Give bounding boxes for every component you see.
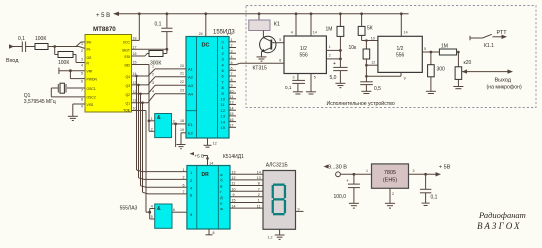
svg-text:Q3: Q3 [125, 84, 130, 88]
svg-text:7: 7 [183, 190, 185, 194]
svg-text:1/2: 1/2 [397, 46, 404, 52]
svg-text:(на микрофон): (на микрофон) [487, 85, 522, 91]
svg-text:100К: 100К [35, 36, 46, 42]
svg-text:6: 6 [279, 59, 281, 63]
wire DA2 bottom pin [366, 72, 405, 80]
gate DD1.1 (&) [151, 114, 175, 138]
svg-text:9: 9 [233, 193, 235, 197]
svg-text:17: 17 [133, 45, 137, 49]
ground emitter [257, 57, 267, 61]
svg-text:к20: к20 [464, 60, 472, 66]
svg-text:3: 3 [293, 76, 295, 80]
svg-text:VSS: VSS [87, 103, 95, 107]
IC U1 МТ8870 DTMF decoder [81, 26, 137, 113]
svg-text:155ИД3: 155ИД3 [213, 30, 235, 36]
svg-text:в: в [220, 183, 222, 188]
svg-text:TOE: TOE [123, 109, 131, 113]
svg-text:GS: GS [87, 56, 93, 60]
resistor R8 1М (output) [439, 44, 459, 56]
svg-text:МТ8870: МТ8870 [93, 26, 116, 33]
svg-text:10: 10 [232, 187, 236, 191]
IC U2 155ИД3 decoder [186, 30, 235, 139]
svg-text:9: 9 [231, 84, 233, 88]
svg-text:8: 8 [213, 231, 215, 235]
wire Q2 pin12 to A3 [132, 85, 187, 95]
svg-text:1: 1 [183, 168, 185, 172]
svg-text:АЛС321Б: АЛС321Б [266, 163, 289, 169]
resistor R9 к20 [453, 52, 471, 89]
svg-text:Радиофанат: Радиофанат [478, 210, 526, 220]
svg-text:А2: А2 [188, 74, 194, 79]
+5V rail wire [117, 13, 409, 15]
svg-text:10: 10 [230, 89, 234, 93]
svg-text:Q4: Q4 [125, 75, 130, 79]
pin 8 ground К514ИД1 [206, 229, 215, 235]
svg-text:14: 14 [404, 31, 408, 35]
ground VSS pin9 [68, 104, 85, 121]
svg-text:4: 4 [151, 205, 153, 209]
wire input [13, 46, 22, 48]
capacitor C7 0,1 (output) [420, 174, 438, 205]
svg-text:5: 5 [279, 38, 281, 42]
svg-text:1: 1 [258, 199, 260, 203]
svg-text:&: & [157, 115, 161, 121]
display right pin stub [296, 208, 304, 212]
pin 24 wire to rail [199, 14, 206, 37]
svg-text:6: 6 [173, 208, 175, 212]
svg-text:2: 2 [392, 192, 394, 196]
svg-text:8: 8 [258, 182, 260, 186]
bus branch down to К514ИД1 input 8 [143, 103, 187, 194]
svg-text:8: 8 [231, 78, 233, 82]
wire to DA2 pin12 [366, 61, 378, 65]
svg-text:Выход: Выход [495, 78, 512, 84]
power input 9...30V [324, 165, 372, 177]
svg-text:7805: 7805 [384, 170, 396, 176]
svg-text:14: 14 [221, 119, 226, 124]
svg-text:Е2: Е2 [188, 131, 194, 136]
+5V output wire [409, 165, 451, 177]
crystal ZQ1 3,579545 МГц [24, 83, 85, 105]
svg-text:КТ315: КТ315 [253, 66, 268, 72]
svg-text:2: 2 [183, 176, 185, 180]
svg-text:4: 4 [81, 64, 83, 68]
segment wires a-g [230, 174, 263, 208]
+5V feed К514ИД1 pin14 [190, 152, 214, 166]
timer DA2 1/2 556 [378, 14, 440, 73]
wire to IN pins [48, 42, 85, 49]
svg-text:РТТ: РТТ [497, 30, 508, 36]
svg-text:Е1: Е1 [188, 122, 194, 127]
svg-text:3: 3 [413, 169, 415, 173]
svg-text:7: 7 [231, 72, 233, 76]
ground E2 [177, 145, 186, 149]
svg-text:1: 1 [231, 38, 233, 42]
resistor R5 5К [358, 14, 378, 42]
svg-text:1/2: 1/2 [300, 46, 307, 52]
wire gate DD1.2 output to pin 9 [172, 208, 187, 212]
ground DA1 pin [306, 74, 316, 95]
resistor R3 300К [132, 51, 167, 67]
svg-text:1: 1 [151, 117, 153, 121]
svg-text:15: 15 [232, 199, 236, 203]
svg-text:13: 13 [133, 81, 137, 85]
bus branch down to К514ИД1 input 4 [141, 94, 187, 188]
svg-text:0,1: 0,1 [155, 22, 162, 28]
wire StD pin15 to gate DD1.1 inputs [132, 65, 155, 132]
svg-text:12: 12 [232, 176, 236, 180]
wire [26, 46, 35, 48]
svg-text:1: 1 [366, 169, 368, 173]
wire Q3 pin13 to A2 [132, 77, 187, 86]
capacitor C3 0,1 (DA1) [285, 74, 305, 95]
svg-text:300: 300 [437, 67, 446, 73]
svg-text:5К: 5К [367, 26, 373, 32]
svg-text:IN+: IN+ [87, 41, 92, 45]
svg-text:13: 13 [232, 170, 236, 174]
svg-text:К514ИД1: К514ИД1 [223, 154, 244, 160]
svg-text:14: 14 [232, 204, 236, 208]
display ground [268, 229, 285, 239]
svg-text:1: 1 [152, 65, 154, 69]
svg-text:11: 11 [257, 204, 261, 208]
svg-text:19: 19 [180, 128, 184, 132]
svg-text:&: & [157, 206, 161, 212]
resistor R7 300 [426, 52, 445, 94]
svg-text:11: 11 [133, 99, 137, 103]
wire Q4 pin14 to A1 [132, 69, 187, 77]
svg-text:0,1: 0,1 [285, 85, 292, 90]
svg-text:14: 14 [257, 170, 261, 174]
svg-text:+ 5В: + 5В [439, 165, 451, 171]
wire E2 to ground [181, 133, 186, 145]
wire gate DD1.1 output to E1 [172, 123, 187, 148]
svg-text:3,579545 МГц: 3,579545 МГц [24, 99, 56, 105]
svg-text:ВАЗГОХ: ВАЗГОХ [477, 221, 522, 231]
svg-text:7: 7 [258, 187, 260, 191]
svg-text:1М: 1М [326, 27, 333, 33]
wire VDD pin18 to rail [132, 14, 140, 41]
+5V rail label [96, 12, 119, 19]
output arrow Выход [462, 69, 522, 90]
svg-text:21: 21 [180, 72, 184, 76]
svg-text:К1: К1 [274, 22, 280, 28]
svg-text:8: 8 [81, 98, 83, 102]
svg-text:DC: DC [202, 43, 210, 49]
svg-text:24: 24 [199, 32, 203, 36]
svg-text:13: 13 [257, 176, 261, 180]
svg-text:12: 12 [133, 90, 137, 94]
svg-text:1: 1 [329, 45, 331, 49]
svg-text:4: 4 [152, 89, 154, 93]
svg-text:0,5: 0,5 [374, 86, 381, 92]
svg-text:6: 6 [183, 184, 185, 188]
svg-text:ж: ж [220, 206, 223, 211]
svg-text:4: 4 [231, 55, 233, 59]
capacitor C4 5,0 electrolytic [330, 61, 348, 88]
svg-text:10: 10 [221, 97, 226, 102]
svg-text:А4: А4 [188, 91, 194, 96]
handwritten signature [477, 210, 526, 231]
rail junction dots [138, 12, 403, 15]
svg-text:ESt: ESt [125, 55, 131, 59]
gate DD1.2 (&) 555ЛА3 [120, 204, 172, 228]
svg-text:18: 18 [180, 119, 184, 123]
resistor R2 100К (GS feedback) [55, 47, 85, 67]
output stub pin numbers [230, 38, 234, 128]
svg-text:556: 556 [396, 53, 405, 59]
svg-text:14: 14 [209, 162, 213, 166]
svg-text:2: 2 [231, 44, 233, 48]
wire VRef/INH tie [59, 68, 85, 79]
svg-text:17: 17 [230, 124, 234, 128]
svg-text:2: 2 [81, 49, 83, 53]
relay K1 [249, 14, 280, 38]
svg-text:555ЛА3: 555ЛА3 [120, 206, 138, 212]
svg-text:+: + [333, 61, 336, 67]
svg-text:DR: DR [202, 172, 210, 178]
pin numbers 155ИД3 left [180, 64, 184, 132]
resistor R6 10к [349, 41, 370, 82]
svg-text:12: 12 [213, 142, 217, 146]
svg-text:11: 11 [230, 95, 234, 99]
7-segment digit 8 [272, 184, 286, 216]
resistor R1 100К (input) [35, 36, 48, 50]
svg-text:5: 5 [424, 47, 426, 51]
regulator DA3 7805 (ЕН5) [366, 164, 415, 188]
svg-text:1,2: 1,2 [268, 236, 273, 240]
svg-text:9: 9 [404, 76, 406, 80]
svg-text:1М: 1М [441, 44, 448, 50]
svg-text:0,1: 0,1 [431, 195, 438, 201]
svg-text:5,0: 5,0 [330, 75, 337, 81]
capacitor C2 0,1 (StGT) [155, 14, 173, 54]
svg-text:StGT: StGT [122, 49, 130, 53]
svg-text:23: 23 [180, 89, 184, 93]
svg-text:10: 10 [133, 107, 137, 111]
svg-text:Исполнительное устройство: Исполнительное устройство [327, 100, 395, 107]
svg-text:9...30 В: 9...30 В [328, 165, 347, 171]
svg-text:556: 556 [300, 53, 309, 59]
pin 12 ground 155ИД3 [204, 138, 217, 147]
svg-text:VCC: VCC [123, 41, 131, 45]
svg-text:22: 22 [180, 80, 184, 84]
svg-text:+ 5 В: + 5 В [96, 13, 110, 19]
svg-text:5: 5 [81, 72, 83, 76]
svg-text:3: 3 [152, 81, 154, 85]
svg-text:11: 11 [232, 182, 236, 186]
resistor R4 1М (DA1) [326, 14, 344, 67]
svg-text:100К: 100К [58, 60, 69, 66]
wire StGT pin17 [132, 48, 167, 50]
svg-text:20: 20 [180, 64, 184, 68]
svg-text:3: 3 [231, 49, 233, 53]
svg-text:7: 7 [81, 89, 83, 93]
capacitor C1 0,1 (input) [18, 36, 26, 52]
svg-text:16: 16 [133, 52, 137, 56]
svg-text:10к: 10к [349, 45, 358, 51]
switch K1.1 and РТТ [470, 30, 507, 49]
svg-text:2: 2 [151, 127, 153, 131]
input terminal Вход [6, 44, 19, 64]
capacitor C6 100,0 electrolytic [334, 174, 360, 203]
svg-text:10: 10 [371, 36, 375, 40]
svg-text:9: 9 [81, 105, 83, 109]
svg-text:15: 15 [133, 61, 137, 65]
svg-text:А1: А1 [188, 67, 194, 72]
wire TOE pin10 to gate DD1.2 inputs [132, 111, 150, 213]
svg-text:12: 12 [371, 61, 375, 65]
svg-text:12: 12 [221, 108, 226, 113]
svg-text:6: 6 [81, 80, 83, 84]
svg-text:OSC1: OSC1 [87, 87, 96, 91]
svg-text:16: 16 [230, 118, 234, 122]
svg-text:14: 14 [313, 31, 317, 35]
svg-text:13: 13 [221, 114, 226, 119]
wire output 4 to DA1 trigger [236, 63, 284, 64]
timer DA1 1/2 556 [279, 14, 340, 74]
transistor VT1 КТ315 [253, 36, 285, 71]
svg-text:0,1: 0,1 [18, 36, 25, 42]
capacitor C5 0,5 [360, 82, 381, 94]
svg-text:9: 9 [298, 208, 300, 212]
svg-text:13: 13 [230, 101, 234, 105]
executive device dashed box [246, 6, 536, 108]
svg-text:StD: StD [124, 64, 130, 68]
svg-text:4: 4 [291, 31, 293, 35]
segment wire pin numbers [232, 170, 261, 208]
svg-text:5: 5 [231, 61, 233, 65]
output numbers 0-15 inside 155ИД3 [221, 40, 226, 131]
svg-text:15: 15 [221, 125, 226, 130]
output pin stubs 155ИД3 [229, 42, 236, 128]
svg-text:(ЕН5): (ЕН5) [383, 178, 398, 184]
svg-text:2: 2 [258, 193, 260, 197]
svg-text:PWDN: PWDN [87, 78, 98, 82]
svg-text:Вход: Вход [6, 58, 19, 64]
svg-text:5: 5 [151, 215, 153, 219]
svg-text:1: 1 [81, 42, 83, 46]
display HG1 АЛС321Б [263, 163, 296, 230]
svg-text:Q1: Q1 [125, 102, 130, 106]
svg-text:2: 2 [329, 54, 331, 58]
pin numbers К514ИД1 left [183, 168, 185, 194]
svg-text:+: + [346, 178, 349, 183]
svg-text:К1.1: К1.1 [484, 43, 494, 49]
svg-text:VRf: VRf [87, 70, 93, 74]
svg-text:15: 15 [230, 112, 234, 116]
IC U3 К514ИД1 7-seg decoder [187, 154, 244, 229]
svg-text:5: 5 [314, 76, 316, 80]
svg-text:6: 6 [231, 67, 233, 71]
svg-text:14: 14 [230, 106, 234, 110]
svg-text:100,0: 100,0 [334, 194, 347, 200]
bus branch down to К514ИД1 input 2 [139, 85, 187, 179]
bus branch down to К514ИД1 input 1 [137, 76, 187, 172]
svg-text:OSC2: OSC2 [87, 96, 96, 100]
svg-text:+5 В: +5 В [195, 153, 205, 158]
svg-text:IN-: IN- [87, 48, 92, 52]
wire Q1 pin11 to A4 [132, 94, 187, 104]
ground C6 [349, 203, 359, 208]
svg-text:2: 2 [152, 72, 154, 76]
svg-text:А3: А3 [188, 83, 194, 88]
wire labels 1-4 on A bus [152, 65, 154, 94]
svg-text:Q2: Q2 [125, 93, 130, 97]
svg-text:3: 3 [81, 58, 83, 62]
svg-text:3: 3 [173, 120, 175, 124]
regulator ground pin 2 [385, 188, 395, 208]
